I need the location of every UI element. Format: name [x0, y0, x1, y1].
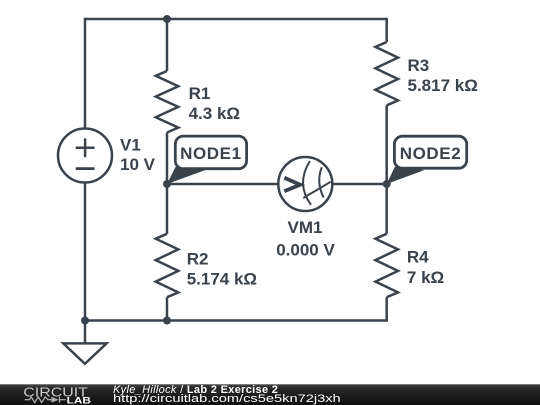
CircuitLab logo resistor-diode doodle — [25, 397, 66, 403]
ground — [63, 321, 106, 364]
svg-text:R4: R4 — [407, 248, 429, 267]
svg-text:R1: R1 — [189, 84, 211, 103]
svg-text:NODE2: NODE2 — [400, 144, 462, 163]
wire left column bottom (V1 minus terminal to bottom rail) — [84, 183, 87, 321]
resistor R4 — [375, 234, 398, 297]
junction bottom left at ground — [81, 317, 89, 325]
voltage source V1 — [58, 129, 112, 183]
value label R3 / 5.817 kohm — [408, 56, 478, 95]
value label R2 / 5.174 kohm — [187, 250, 257, 289]
wire R4 bottom lead — [385, 297, 388, 322]
junction bottom of R2 — [163, 317, 171, 325]
wire R1 bottom lead to NODE1 — [166, 133, 169, 185]
value label R4 / 7 kohm — [407, 248, 444, 287]
svg-text:5.817 kΩ: 5.817 kΩ — [408, 76, 478, 95]
junction NODE2 — [383, 180, 391, 188]
voltmeter VM1 — [278, 157, 332, 211]
resistor R2 — [156, 234, 179, 297]
value label R1 / 4.3 kohm — [189, 84, 240, 123]
wire R3 bottom lead to NODE2 — [385, 105, 388, 184]
wire R1 top lead — [166, 19, 169, 71]
wire NODE1 to VM1 left terminal — [167, 183, 278, 186]
svg-text:LAB: LAB — [67, 395, 92, 405]
wire R4 top lead from NODE2 — [385, 184, 388, 234]
svg-text:V1: V1 — [120, 136, 141, 155]
wire left column top (top rail to V1 plus terminal) — [84, 18, 87, 129]
wire R2 top lead from NODE1 — [166, 184, 169, 234]
svg-text:R2: R2 — [187, 250, 209, 269]
node NODE1 callout — [167, 136, 247, 184]
resistor R3 — [375, 42, 398, 105]
node NODE2 callout — [387, 136, 467, 184]
svg-text:VM1: VM1 — [288, 218, 323, 237]
resistor R1 — [156, 71, 179, 133]
wire R2 bottom lead — [166, 297, 169, 320]
junction top of R1 — [163, 15, 171, 23]
wire VM1 right terminal to NODE2 — [333, 183, 387, 186]
svg-text:http://circuitlab.com/cs5e5kn7: http://circuitlab.com/cs5e5kn72j3xh — [113, 393, 341, 405]
svg-text:R3: R3 — [408, 56, 430, 75]
value label V1 / 10 V — [120, 136, 156, 174]
svg-text:10 V: 10 V — [120, 155, 156, 174]
svg-text:7 kΩ: 7 kΩ — [407, 268, 444, 287]
wire bottom rail from ground junction to R4 — [85, 319, 387, 322]
footer bar — [0, 384, 540, 405]
wire R3 top lead — [385, 18, 388, 42]
wire top rail from left column to R3 — [85, 18, 387, 21]
junction NODE1 — [163, 180, 171, 188]
svg-text:5.174 kΩ: 5.174 kΩ — [187, 270, 257, 289]
svg-text:NODE1: NODE1 — [180, 144, 242, 163]
svg-text:4.3 kΩ: 4.3 kΩ — [189, 104, 240, 123]
value label VM1 / 0.000 V — [276, 218, 335, 259]
svg-text:0.000 V: 0.000 V — [276, 240, 335, 259]
